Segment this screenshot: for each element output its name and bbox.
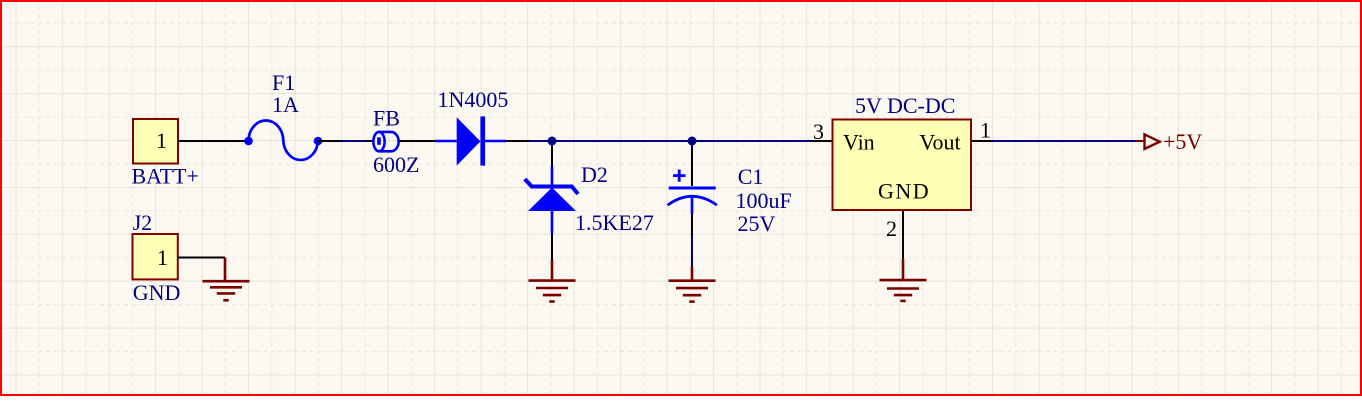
svg-text:C1: C1: [738, 164, 764, 189]
svg-text:1N4005: 1N4005: [438, 87, 509, 112]
ground at D2: [529, 260, 576, 302]
ground at J2: [203, 258, 250, 301]
svg-text:GND: GND: [878, 179, 930, 204]
svg-text:FB: FB: [373, 106, 400, 131]
pin 3 (black): [811, 140, 833, 142]
pin J2 (black): [178, 257, 225, 259]
wire fuse to FB: [342, 140, 366, 142]
pin fuse right (black): [318, 140, 342, 142]
svg-text:600Z: 600Z: [373, 152, 419, 177]
pin C1 bottom (black): [691, 214, 693, 236]
pin D2 bottom (black): [551, 234, 553, 260]
wire diode to node A: [530, 140, 552, 142]
svg-text:2: 2: [886, 216, 897, 241]
svg-text:1: 1: [156, 128, 167, 153]
svg-text:1: 1: [157, 245, 168, 270]
connector J2 box: [133, 234, 178, 279]
svg-text:GND: GND: [133, 280, 181, 305]
svg-text:5V DC-DC: 5V DC-DC: [855, 93, 955, 118]
pin diode right (black): [506, 140, 530, 142]
svg-text:+5V: +5V: [1163, 129, 1202, 154]
pin 1 (black): [971, 140, 991, 142]
svg-text:D2: D2: [581, 162, 608, 187]
wire node A down: [551, 141, 553, 147]
wire C1 to ground: [691, 236, 693, 267]
pin D2 top (black): [551, 147, 553, 167]
wire node A to node B: [552, 140, 692, 142]
svg-text:100uF: 100uF: [736, 188, 792, 213]
wire DC-DC out to +5V: [991, 140, 1136, 142]
svg-text:1.5KE27: 1.5KE27: [575, 210, 654, 235]
pin FB left (black): [366, 140, 374, 142]
connector J1 BATT+ box: [133, 119, 178, 164]
svg-text:BATT+: BATT+: [132, 164, 199, 189]
diode D1 1N4005: [435, 116, 506, 165]
capacitor C1: [668, 170, 717, 215]
svg-text:25V: 25V: [738, 211, 776, 236]
svg-text:Vin: Vin: [843, 130, 875, 155]
power port +5V: [1136, 134, 1160, 149]
svg-text:3: 3: [813, 119, 824, 144]
zener D2 1.5KE27: [525, 167, 578, 234]
svg-text:1: 1: [980, 118, 991, 143]
wire node B to DC-DC: [692, 140, 811, 142]
wire node B down: [691, 141, 693, 149]
svg-text:1A: 1A: [272, 92, 299, 117]
ground at C1: [669, 267, 716, 302]
svg-text:J2: J2: [133, 210, 153, 235]
pin C1 top (black): [691, 149, 693, 187]
regulator U1 5V DC-DC box: [833, 120, 972, 211]
fuse F1: [244, 121, 322, 160]
wire BATT+ pin to fuse: [178, 140, 248, 142]
node B junction: [688, 137, 697, 146]
pin 2 (black): [902, 210, 904, 259]
svg-text:Vout: Vout: [919, 130, 960, 155]
ferrite bead FB: [373, 132, 398, 151]
pin FB right (black): [399, 140, 435, 142]
ground at U1: [880, 259, 927, 301]
node A junction: [548, 137, 557, 146]
